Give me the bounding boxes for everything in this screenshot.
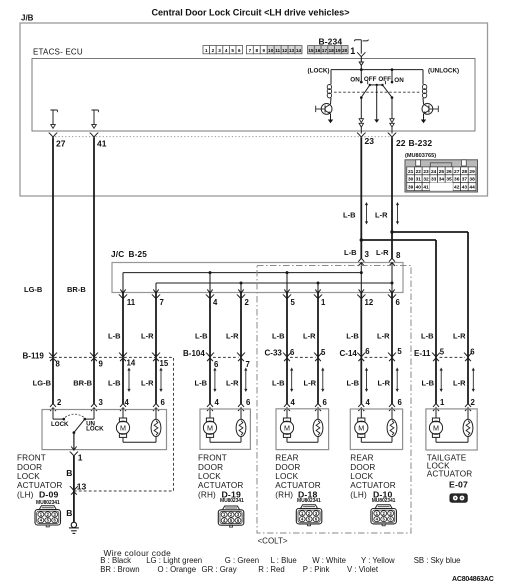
svg-text:15: 15 bbox=[308, 48, 314, 53]
svg-text:29: 29 bbox=[469, 169, 475, 175]
switch common to ground arrow bbox=[374, 85, 379, 123]
E-07 internal return wire bbox=[436, 437, 468, 443]
C-14 pin 6 label bbox=[365, 347, 370, 356]
wire B (D-09 pin1 down) bbox=[73, 456, 75, 491]
junction block J/B label bbox=[21, 13, 34, 22]
actuator entry chevrons x=241 bbox=[238, 404, 244, 412]
(LOCK) label bbox=[308, 67, 330, 74]
svg-text:LOCK: LOCK bbox=[86, 425, 104, 432]
ground arrow (lock driver) bbox=[328, 120, 333, 124]
svg-text:B-119: B-119 bbox=[23, 352, 45, 361]
pin 41 label bbox=[97, 138, 107, 148]
connector B-104 label bbox=[183, 349, 205, 358]
connector C-14 dashed line bbox=[365, 356, 390, 358]
wire label L-B (at J/C) bbox=[344, 248, 357, 257]
tailgate lock actuator E-07 box bbox=[426, 409, 477, 450]
svg-text:LG : Light green: LG : Light green bbox=[146, 556, 202, 565]
actuator entry chevrons x=392 bbox=[389, 404, 395, 412]
direction arrow bbox=[321, 368, 324, 393]
svg-text:4: 4 bbox=[213, 298, 218, 307]
female terminal at ECU exit x=94 bbox=[90, 133, 99, 138]
svg-text:13: 13 bbox=[77, 482, 87, 492]
svg-text:5: 5 bbox=[321, 348, 326, 357]
wire label L-B bbox=[108, 332, 121, 341]
svg-text:L-R: L-R bbox=[303, 332, 316, 341]
wire label L-R bbox=[141, 332, 154, 341]
J/C pin 3 label bbox=[365, 250, 370, 259]
svg-text:L-B: L-B bbox=[195, 378, 208, 387]
D-10 motor feed wire bbox=[360, 409, 362, 418]
svg-text:L-R: L-R bbox=[226, 378, 239, 387]
svg-text:6: 6 bbox=[365, 347, 370, 356]
actuator pin 6 label bbox=[246, 398, 251, 407]
rear door lock actuator (LH) D-10 box bbox=[350, 409, 402, 450]
svg-text:DOOR: DOOR bbox=[350, 463, 375, 472]
wire LG-B (pin 27 to D-09 pin 2) bbox=[52, 137, 54, 404]
svg-text:DOOR: DOOR bbox=[275, 463, 300, 472]
bus tap to pin 1 bbox=[317, 282, 320, 293]
connector B-104 dashed line bbox=[213, 356, 239, 358]
lock driver transistor bbox=[316, 104, 332, 120]
C-14 pin 5 label bbox=[397, 347, 402, 356]
svg-text:L-R: L-R bbox=[141, 378, 154, 387]
svg-text:MU802341: MU802341 bbox=[372, 498, 396, 504]
wire label L-B (lower) bbox=[422, 378, 435, 387]
motor M (D-19) bbox=[203, 418, 216, 437]
ground arrow (unlock driver) bbox=[421, 120, 426, 124]
svg-text:LOCK: LOCK bbox=[17, 472, 40, 481]
svg-text:J/C: J/C bbox=[111, 250, 124, 259]
svg-text:L-R: L-R bbox=[375, 211, 388, 220]
D-09 lock contact feed bbox=[53, 410, 65, 421]
svg-text:(LOCK): (LOCK) bbox=[308, 67, 330, 74]
wire label L-B (lower) bbox=[195, 378, 208, 387]
B-119 pin 15 label bbox=[160, 359, 169, 368]
wire label BR-B (lower) bbox=[73, 378, 92, 387]
E-11 pin 6 label bbox=[470, 347, 475, 356]
J/C exit terminal pin 7 bbox=[152, 289, 160, 298]
D-18 motor feed wire bbox=[286, 409, 288, 418]
actuator entry chevrons x=156 bbox=[153, 404, 159, 412]
D-10 internal return wire bbox=[361, 437, 392, 443]
svg-text:L-R: L-R bbox=[304, 378, 317, 387]
svg-text:42: 42 bbox=[454, 185, 460, 191]
svg-text:6: 6 bbox=[238, 48, 241, 53]
junction dot (lock branch) bbox=[360, 68, 363, 71]
bus tap to pin 5 bbox=[286, 271, 289, 292]
svg-text:15: 15 bbox=[160, 359, 169, 368]
wire label L-B (lower) bbox=[347, 378, 360, 387]
svg-text:L-R: L-R bbox=[453, 332, 466, 341]
wire label L-R (upper) bbox=[375, 211, 388, 220]
wire label L-R bbox=[453, 332, 466, 341]
svg-text:5: 5 bbox=[231, 48, 234, 53]
svg-text:33: 33 bbox=[431, 177, 437, 183]
svg-text:35: 35 bbox=[446, 177, 452, 183]
J/C entry chevrons pin 8 bbox=[389, 258, 395, 266]
front door lock actuator (LH) D-09 box bbox=[42, 410, 167, 450]
svg-text:(MU803765): (MU803765) bbox=[405, 153, 436, 159]
wire label L-R bbox=[226, 332, 239, 341]
rear door lock actuator (LH) label bbox=[350, 454, 395, 500]
svg-text:6: 6 bbox=[214, 360, 219, 369]
wire label L-R (lower) bbox=[304, 378, 317, 387]
direction arrow bbox=[396, 368, 399, 393]
svg-text:FRONT: FRONT bbox=[198, 454, 227, 463]
svg-text:(LH): (LH) bbox=[350, 490, 367, 499]
svg-text:7: 7 bbox=[246, 360, 250, 369]
B-119 crossing terminal x=123 bbox=[119, 353, 127, 362]
COLT label bbox=[258, 536, 288, 545]
OFF label (right) bbox=[378, 76, 391, 83]
direction arrow bbox=[213, 368, 216, 393]
svg-text:1: 1 bbox=[205, 48, 208, 53]
bus drop to pin 7 bbox=[155, 283, 157, 293]
svg-text:10: 10 bbox=[268, 48, 274, 53]
svg-text:1: 1 bbox=[440, 398, 445, 407]
svg-text:21: 21 bbox=[408, 169, 414, 175]
svg-text:L-B: L-B bbox=[421, 332, 434, 341]
relay mechanical linkage (dashed) bbox=[334, 91, 420, 93]
D-19 coil feed wire bbox=[240, 409, 242, 419]
svg-text:3: 3 bbox=[218, 48, 221, 53]
svg-text:7: 7 bbox=[249, 48, 252, 53]
svg-text:28: 28 bbox=[462, 169, 468, 175]
svg-text:REAR: REAR bbox=[350, 454, 373, 463]
E-07 coil feed wire bbox=[467, 409, 469, 419]
svg-text:22: 22 bbox=[396, 138, 406, 148]
wire label L-B bbox=[421, 332, 434, 341]
wire label L-B bbox=[272, 332, 285, 341]
unlock switch arm bbox=[383, 85, 394, 99]
front door lock actuator (LH) label bbox=[17, 454, 62, 500]
wire label L-R (lower) bbox=[378, 378, 391, 387]
actuator pin 6 label bbox=[398, 398, 403, 407]
wire label L-R (at J/C) bbox=[376, 248, 389, 257]
J/C exit terminal pin 6 bbox=[388, 289, 396, 298]
svg-text:25: 25 bbox=[439, 169, 445, 175]
wire B (to ground) bbox=[73, 491, 75, 522]
L-B bus inside J/C bbox=[123, 272, 361, 274]
female terminal at ECU exit x=53 bbox=[49, 133, 58, 138]
wire L-R branch to tailgate bbox=[392, 232, 468, 404]
D-09 coil feed wire bbox=[155, 409, 157, 419]
svg-text:BR-B: BR-B bbox=[73, 378, 92, 387]
D-09 switch common wire bbox=[73, 433, 75, 450]
wire label L-R (lower) bbox=[226, 378, 239, 387]
J/C exit terminal pin 5 bbox=[283, 289, 291, 298]
svg-text:6: 6 bbox=[323, 398, 328, 407]
svg-text:O : Orange: O : Orange bbox=[158, 565, 197, 574]
svg-text:11: 11 bbox=[275, 48, 280, 53]
svg-text:8: 8 bbox=[256, 48, 259, 53]
svg-text:P : Pink: P : Pink bbox=[303, 565, 330, 574]
ON label (left) bbox=[350, 77, 360, 84]
D-09 connector part label bbox=[36, 500, 60, 506]
E-07 motor feed wire bbox=[435, 409, 437, 418]
svg-text:M: M bbox=[207, 423, 213, 432]
svg-text:32: 32 bbox=[423, 177, 429, 183]
svg-text:5: 5 bbox=[397, 347, 402, 356]
actuator pin 2 label bbox=[471, 398, 476, 407]
svg-text:7: 7 bbox=[160, 298, 164, 307]
svg-text:14: 14 bbox=[127, 359, 136, 368]
L-R bus inside J/C bbox=[156, 282, 392, 284]
B-104 pin 7 label bbox=[246, 360, 250, 369]
wire label L-R (lower) bbox=[453, 378, 466, 387]
svg-text:6: 6 bbox=[396, 298, 401, 307]
B-232 part number bbox=[405, 153, 436, 159]
junction block J/B box bbox=[20, 23, 488, 196]
E-11 pin 5 label bbox=[440, 347, 445, 356]
svg-text:(UNLOCK): (UNLOCK) bbox=[428, 67, 459, 74]
D-09 internal return wire bbox=[123, 437, 156, 443]
svg-text:L-B: L-B bbox=[344, 248, 357, 257]
svg-text:16: 16 bbox=[315, 48, 321, 53]
svg-text:R : Red: R : Red bbox=[258, 565, 284, 574]
pin 3 feed through to pin 12 bbox=[360, 263, 363, 293]
svg-text:(LH): (LH) bbox=[17, 490, 34, 499]
actuator pin 6 label bbox=[323, 398, 328, 407]
wire label L-R bbox=[377, 332, 390, 341]
svg-text:27: 27 bbox=[56, 138, 66, 148]
J/C pin 12 label bbox=[365, 298, 374, 307]
svg-text:4: 4 bbox=[215, 398, 220, 407]
svg-text:37: 37 bbox=[462, 177, 468, 183]
svg-text:34: 34 bbox=[439, 177, 445, 183]
direction arrow bbox=[440, 368, 443, 393]
UN label bbox=[86, 420, 95, 427]
svg-text:1: 1 bbox=[350, 46, 355, 56]
D-09 unlock contact feed bbox=[84, 410, 95, 421]
svg-text:L-B: L-B bbox=[346, 332, 359, 341]
actuator entry chevrons x=436 bbox=[433, 404, 439, 412]
svg-text:13: 13 bbox=[289, 48, 295, 53]
svg-text:5: 5 bbox=[291, 298, 296, 307]
svg-text:9: 9 bbox=[99, 360, 104, 369]
legend line 2 bbox=[100, 565, 379, 574]
resistor coil (E-07) bbox=[463, 419, 473, 436]
svg-text:DOOR: DOOR bbox=[198, 463, 223, 472]
svg-text:REAR: REAR bbox=[275, 454, 298, 463]
svg-text:12: 12 bbox=[282, 48, 288, 53]
svg-text:ETACS- ECU: ETACS- ECU bbox=[33, 48, 83, 57]
inline connector triangles (pin 23) bbox=[359, 119, 363, 134]
svg-text:LG-B: LG-B bbox=[33, 378, 52, 387]
connector B-234 label bbox=[319, 36, 343, 46]
wire to D-18 pin 4 bbox=[286, 293, 288, 404]
svg-text:4: 4 bbox=[291, 398, 296, 407]
actuator pin 4 label bbox=[125, 398, 130, 407]
svg-text:41: 41 bbox=[423, 185, 429, 191]
wire to D-18 pin 6 bbox=[317, 293, 319, 404]
wire to D-19 pin 6 bbox=[240, 293, 242, 404]
J/C exit terminal pin 2 bbox=[237, 289, 245, 298]
junction on L-B wire bbox=[360, 238, 363, 241]
svg-text:4: 4 bbox=[225, 48, 228, 53]
resistor coil (D-19) bbox=[236, 419, 246, 436]
unlock relay coil bbox=[422, 70, 426, 105]
wire label L-R (lower) bbox=[141, 378, 154, 387]
svg-text:38: 38 bbox=[469, 177, 475, 183]
svg-text:ACTUATOR: ACTUATOR bbox=[427, 470, 472, 479]
svg-text:E-07: E-07 bbox=[449, 480, 468, 490]
svg-text:E-11: E-11 bbox=[414, 349, 431, 358]
rear door lock actuator (RH) label bbox=[275, 454, 320, 500]
svg-text:G : Green: G : Green bbox=[225, 556, 259, 565]
drawing number bbox=[452, 576, 494, 583]
wire label L-B (upper) bbox=[343, 211, 356, 220]
junction connector J/C B-25 box bbox=[112, 263, 403, 293]
actuator entry chevrons x=94 bbox=[91, 404, 97, 412]
svg-text:OFF: OFF bbox=[378, 76, 391, 83]
svg-text:5: 5 bbox=[440, 347, 445, 356]
connector B-234 pin strip (pins 1-20) bbox=[203, 46, 348, 54]
actuator entry chevrons x=361.3 bbox=[358, 404, 364, 412]
svg-text:17: 17 bbox=[322, 48, 328, 53]
unlock switch ON contact bbox=[391, 70, 394, 84]
D-09 motor feed wire bbox=[122, 409, 124, 418]
actuator pin 4 label bbox=[366, 398, 371, 407]
svg-text:AC804863AC: AC804863AC bbox=[452, 576, 494, 583]
svg-text:J/B: J/B bbox=[21, 13, 34, 22]
svg-text:L-B: L-B bbox=[272, 332, 285, 341]
actuator entry chevrons x=210 bbox=[207, 404, 213, 412]
pin 13 label bbox=[77, 482, 87, 492]
C-33 pin 6 label bbox=[290, 348, 295, 357]
wire to D-19 pin 4 bbox=[209, 293, 211, 404]
connector B-234 symbol bbox=[355, 40, 369, 57]
svg-text:B-232: B-232 bbox=[409, 138, 433, 148]
svg-text:L-R: L-R bbox=[377, 332, 390, 341]
connector B-119 label bbox=[23, 352, 45, 361]
wire label L-B bbox=[195, 332, 208, 341]
svg-text:36: 36 bbox=[454, 177, 460, 183]
svg-text:M: M bbox=[284, 423, 290, 432]
wire lock output bbox=[360, 98, 362, 119]
wire B-234 pin1 into ECU bbox=[360, 57, 362, 62]
D-19 motor feed wire bbox=[209, 409, 211, 418]
B-119 crossing terminal x=53 bbox=[49, 353, 57, 362]
svg-text:8: 8 bbox=[56, 360, 61, 369]
svg-text:W : White: W : White bbox=[312, 556, 346, 565]
title bbox=[151, 7, 349, 17]
svg-text:FRONT: FRONT bbox=[17, 454, 46, 463]
female terminal at ECU exit x=392 bbox=[388, 133, 397, 138]
svg-text:20: 20 bbox=[342, 48, 348, 53]
svg-text:12: 12 bbox=[365, 298, 374, 307]
lock switch ON contact bbox=[360, 70, 363, 84]
legend title bbox=[104, 548, 172, 558]
tailgate lock actuator label bbox=[427, 453, 472, 489]
wire label L-B (lower) bbox=[108, 378, 121, 387]
unlock OFF contact tick bbox=[384, 81, 386, 84]
lock OFF contact tick bbox=[367, 81, 369, 84]
wire unlock output bbox=[391, 98, 393, 119]
D-19 internal return wire bbox=[210, 437, 241, 443]
pin 8 feed through to pin 6 bbox=[391, 263, 394, 293]
svg-text:43: 43 bbox=[462, 185, 468, 191]
J/C exit terminal pin 12 bbox=[357, 289, 365, 298]
svg-text:24: 24 bbox=[431, 169, 437, 175]
svg-text:M: M bbox=[433, 423, 439, 432]
motor M (D-18) bbox=[280, 418, 293, 437]
svg-text:6: 6 bbox=[290, 348, 295, 357]
connector B-119 dashed outline bbox=[49, 357, 174, 491]
svg-text:18: 18 bbox=[329, 48, 335, 53]
C-33 crossing terminal x=318 bbox=[314, 353, 322, 362]
direction arrow bbox=[159, 368, 162, 393]
svg-text:SB : Sky blue: SB : Sky blue bbox=[414, 556, 461, 565]
UNLOCK label bbox=[86, 425, 104, 432]
svg-text:LOCK: LOCK bbox=[51, 421, 69, 428]
body harness crossing terminal (pin 13) bbox=[70, 486, 78, 495]
svg-text:6: 6 bbox=[470, 347, 475, 356]
svg-text:30: 30 bbox=[408, 177, 414, 183]
svg-text:44: 44 bbox=[469, 185, 475, 191]
female terminal at ECU exit x=361.3 bbox=[357, 133, 366, 138]
svg-text:3: 3 bbox=[365, 250, 370, 259]
J/C exit terminal pin 11 bbox=[119, 289, 127, 298]
svg-text:11: 11 bbox=[127, 298, 136, 307]
svg-text:Central Door Lock Circuit <LH: Central Door Lock Circuit <LH drive vehi… bbox=[151, 7, 349, 17]
connector E-11 label bbox=[414, 349, 431, 358]
connector C-14 label bbox=[340, 349, 358, 358]
svg-text:23: 23 bbox=[365, 136, 375, 146]
bus drop to pin 11 bbox=[122, 273, 124, 293]
svg-text:31: 31 bbox=[416, 177, 422, 183]
wire label LG-B (lower) bbox=[33, 378, 52, 387]
D-09 pin 1 exit terminal bbox=[70, 447, 78, 456]
wire BR-B (pin 41 to D-09 pin 3) bbox=[93, 137, 95, 404]
svg-text:8: 8 bbox=[396, 251, 401, 260]
junction on L-R wire bbox=[390, 230, 393, 233]
motor M (D-10) bbox=[355, 418, 368, 437]
svg-text:MU802341: MU802341 bbox=[220, 498, 244, 504]
male terminal triangle inside ECU bbox=[359, 62, 363, 65]
C-33 crossing terminal x=287 bbox=[283, 353, 291, 362]
svg-text:23: 23 bbox=[423, 169, 429, 175]
switch common bar bbox=[369, 84, 384, 87]
wire label B bbox=[66, 468, 72, 478]
wire label BR-B bbox=[67, 285, 86, 294]
J/C exit terminal pin 4 bbox=[206, 289, 214, 298]
D-10 connector part label bbox=[372, 498, 396, 504]
junction connector J/C B-25 label bbox=[111, 250, 147, 259]
pin 23 label bbox=[365, 136, 375, 146]
direction arrow bbox=[472, 368, 475, 393]
ECU internal arrow to pin 27 bbox=[50, 110, 57, 128]
svg-text:<COLT>: <COLT> bbox=[258, 536, 288, 545]
J/C pin 4 label bbox=[213, 298, 218, 307]
connector C-33 dashed line bbox=[290, 356, 316, 358]
legend line 1 bbox=[100, 556, 460, 565]
ETACS-ECU box bbox=[32, 59, 475, 132]
svg-text:L-B: L-B bbox=[108, 332, 121, 341]
unlock driver transistor bbox=[422, 104, 438, 120]
bus tap to pin 4 bbox=[209, 271, 212, 292]
connector face dotted line under ECU bbox=[55, 136, 390, 138]
svg-text:B: B bbox=[66, 508, 72, 518]
svg-text:9: 9 bbox=[262, 48, 265, 53]
svg-text:2: 2 bbox=[471, 398, 476, 407]
svg-text:2: 2 bbox=[57, 398, 62, 407]
direction arrow bbox=[290, 368, 293, 393]
B-119 crossing terminal x=94 bbox=[90, 353, 98, 362]
svg-text:L-R: L-R bbox=[376, 248, 389, 257]
D-09 switch arm bbox=[73, 419, 85, 434]
svg-text:BR : Brown: BR : Brown bbox=[100, 565, 139, 574]
